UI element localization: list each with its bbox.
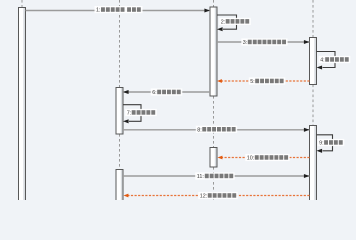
message 2 self-loop on C [217, 15, 237, 31]
activation bar D1 [310, 38, 317, 85]
message 4 label [319, 56, 351, 64]
message 11 label [195, 172, 235, 180]
svg-text:2:: 2: [221, 20, 226, 26]
svg-text:10:: 10: [247, 156, 255, 162]
lifeline D upper dashed segment [312, 0, 314, 38]
message 7 label [125, 109, 157, 117]
svg-text:8:: 8: [197, 127, 202, 133]
activation bar B2 (to bottom) [116, 170, 123, 203]
activation bar A (leftmost, full height) [19, 8, 26, 203]
svg-text:11:: 11: [197, 174, 204, 180]
svg-text:6:: 6: [152, 90, 157, 96]
activation bar D2 (to bottom) [310, 126, 317, 203]
activation bar B1 [116, 88, 123, 135]
message 5 label [249, 77, 285, 85]
lifeline A (dashed segment above activation) [21, 0, 23, 8]
message 6 label [151, 88, 183, 96]
message 10 label [245, 154, 289, 162]
message 5 orange dashed return D to C [217, 79, 310, 83]
message 9 label [318, 139, 345, 147]
lifeline C lower dashed segment [213, 167, 215, 200]
svg-text:9:: 9: [319, 141, 324, 147]
message 4 self-loop on D [317, 52, 336, 70]
message 7 self-loop on B [123, 105, 141, 124]
message 3 arrow C to D [217, 40, 310, 44]
message 3 label [241, 38, 287, 46]
svg-text:3:: 3: [243, 40, 248, 46]
message 11 arrow B to D [123, 174, 310, 178]
lifeline B upper dashed segment [119, 0, 121, 88]
message 9 self-loop on D [317, 135, 333, 153]
svg-text:12:: 12: [200, 194, 208, 200]
message 1 label [95, 6, 143, 14]
svg-text:5:: 5: [250, 79, 255, 85]
message 10 orange dashed D to C [218, 156, 310, 160]
svg-text:1:: 1: [96, 8, 101, 14]
svg-text:4:: 4: [320, 58, 325, 64]
activation bar C1 [210, 7, 217, 96]
lifeline D middle dashed segment [312, 85, 314, 126]
message 8 arrow B to D [123, 128, 310, 132]
message 12 orange dashed D to B [124, 194, 310, 198]
activation bar C2 (small) [210, 148, 217, 168]
lifeline C top dashed segment [213, 0, 215, 7]
lifeline B middle dashed segment [119, 134, 121, 170]
message 6 arrow C to B [123, 90, 210, 94]
message 12 label [198, 192, 238, 200]
message 8 label [196, 126, 237, 134]
message 2 label [219, 18, 251, 26]
svg-text:7:: 7: [127, 111, 132, 117]
message 1 arrow A to C [26, 8, 211, 12]
lifeline C middle dashed segment [213, 96, 215, 148]
